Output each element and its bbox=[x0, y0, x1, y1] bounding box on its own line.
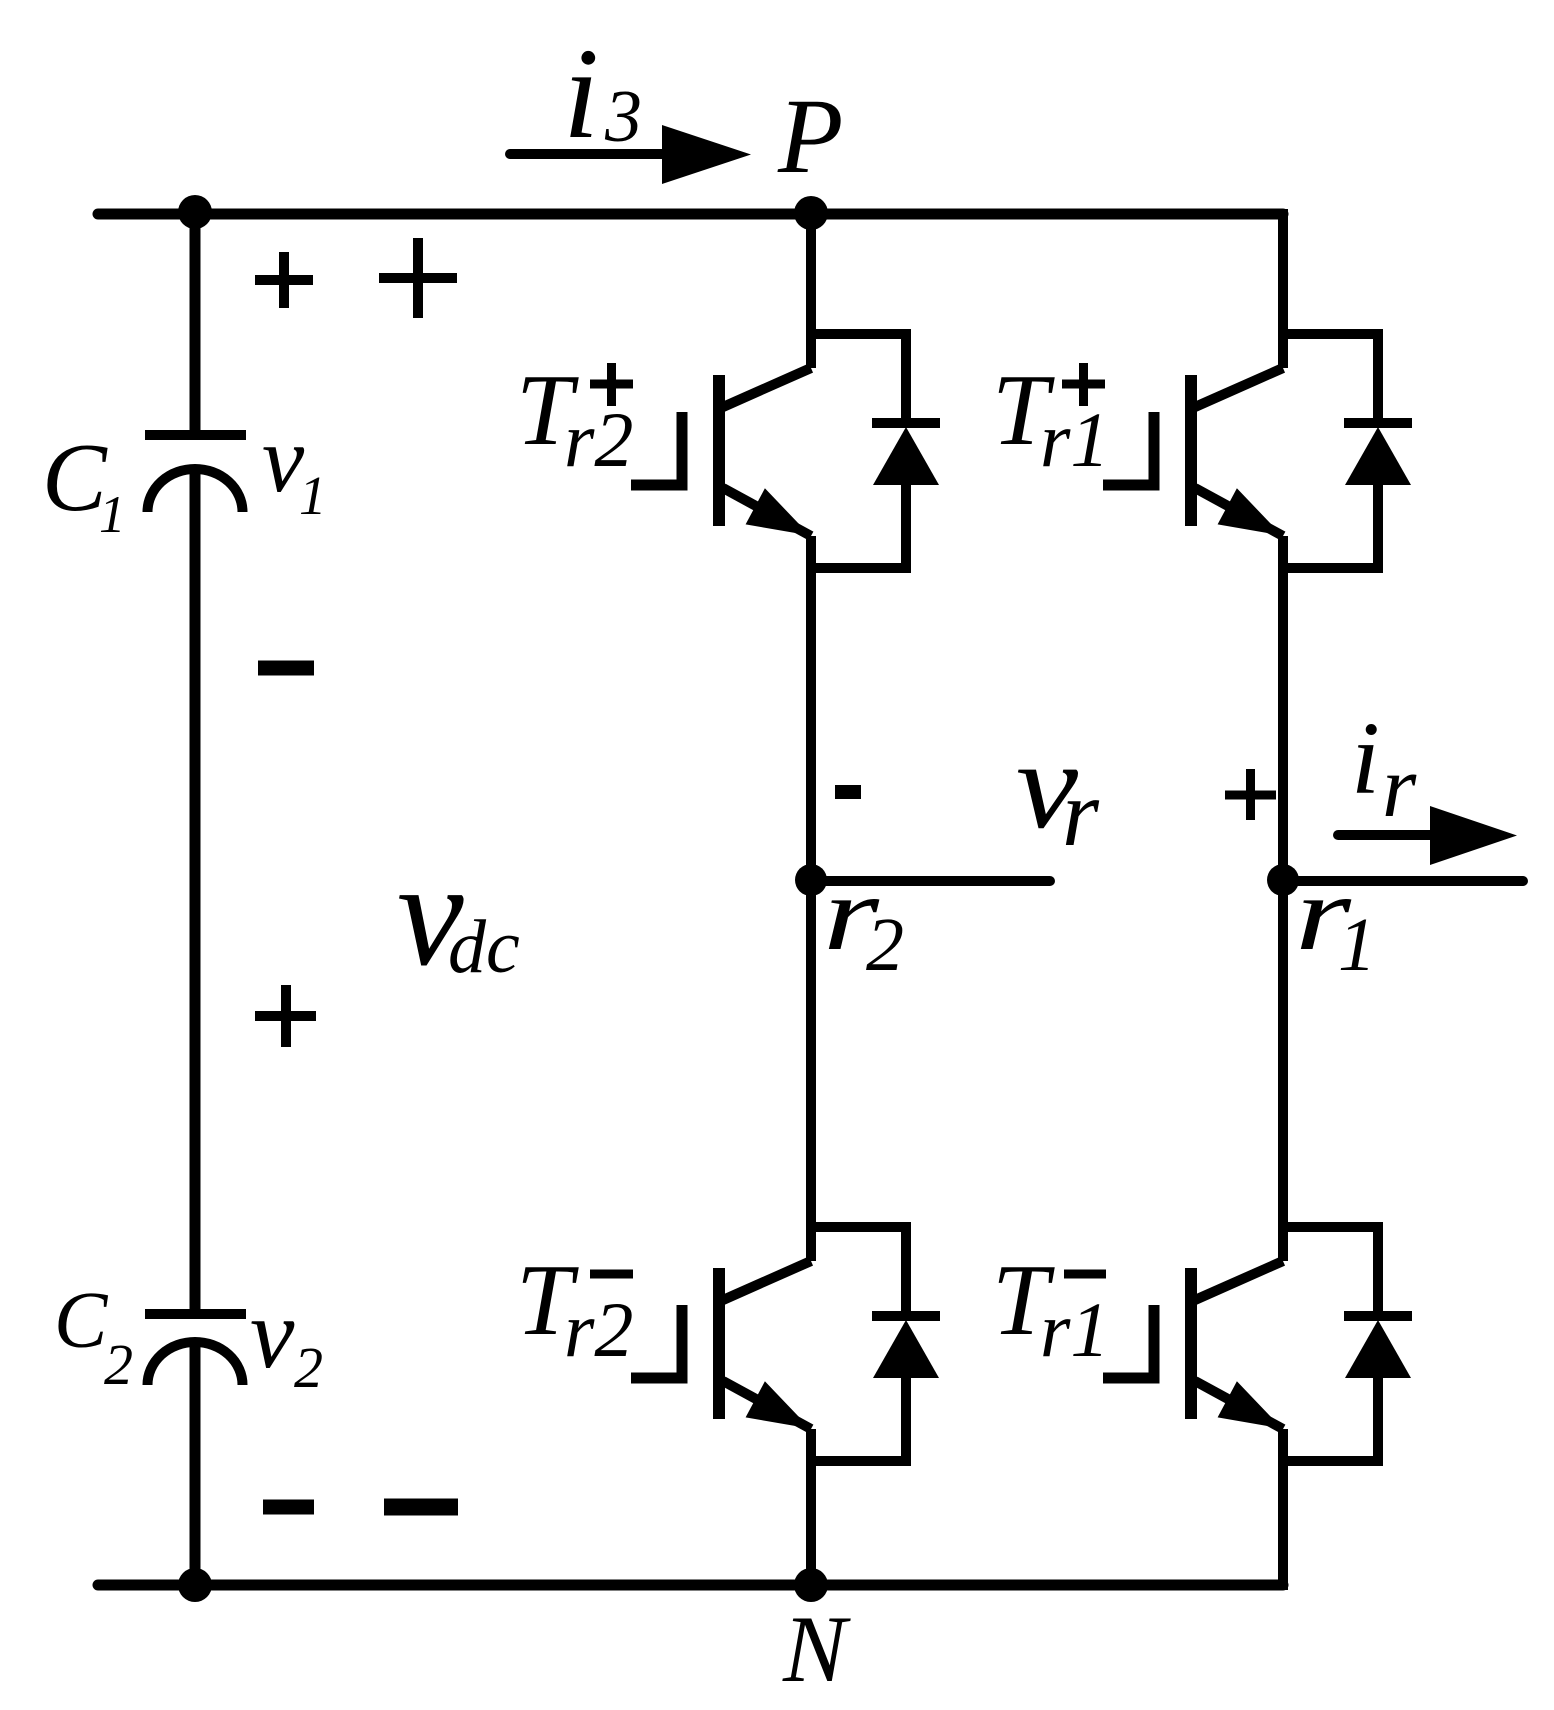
svg-text:2: 2 bbox=[104, 1332, 133, 1397]
svg-text:1: 1 bbox=[1338, 903, 1376, 987]
svg-text:r: r bbox=[1382, 739, 1417, 836]
svg-text:dc: dc bbox=[448, 905, 520, 989]
svg-text:r: r bbox=[1062, 760, 1100, 866]
svg-text:i: i bbox=[1351, 701, 1380, 816]
svg-text:v: v bbox=[250, 1278, 295, 1389]
svg-text:1: 1 bbox=[299, 465, 327, 526]
svg-text:r2: r2 bbox=[564, 1286, 633, 1373]
svg-text:N: N bbox=[782, 1596, 851, 1702]
svg-text:i: i bbox=[563, 22, 599, 166]
svg-text:r2: r2 bbox=[564, 396, 633, 483]
svg-text:C: C bbox=[54, 1277, 109, 1365]
svg-text:P: P bbox=[777, 78, 843, 196]
svg-text:1: 1 bbox=[99, 486, 126, 544]
svg-text:2: 2 bbox=[866, 903, 904, 987]
svg-text:r1: r1 bbox=[1040, 396, 1109, 483]
svg-text:2: 2 bbox=[294, 1335, 323, 1400]
svg-text:r1: r1 bbox=[1040, 1286, 1109, 1373]
svg-text:3: 3 bbox=[604, 76, 642, 158]
